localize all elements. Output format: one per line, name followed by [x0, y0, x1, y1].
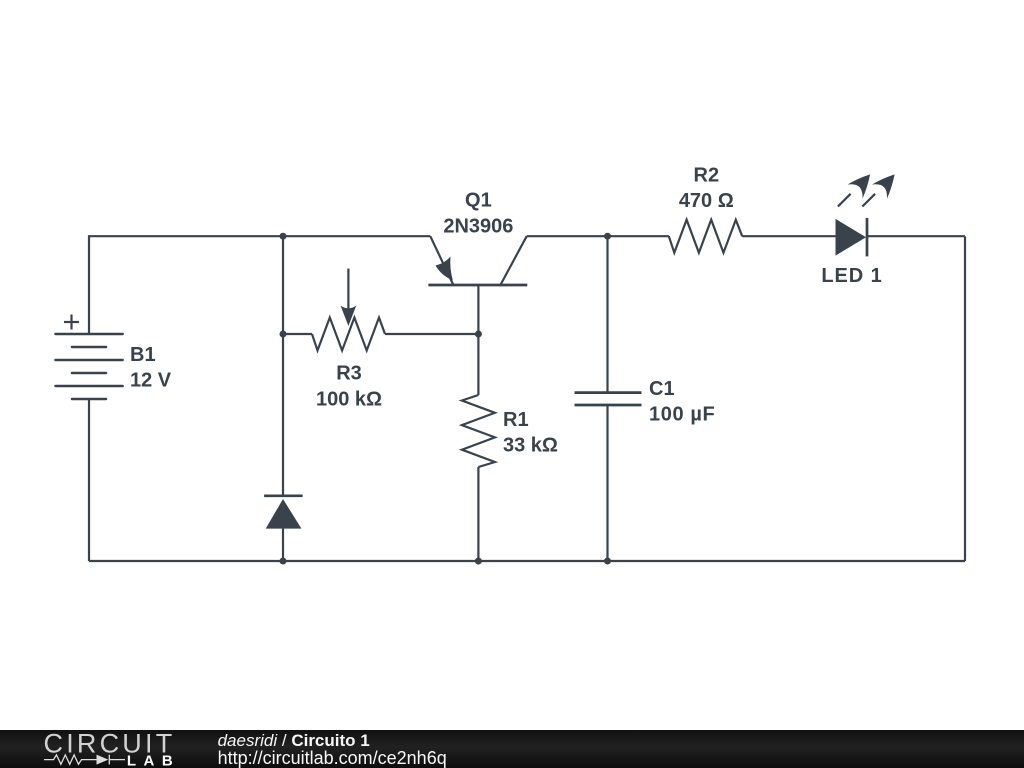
svg-text:Q1: Q1 — [465, 190, 492, 212]
node top rail / diode branch — [280, 233, 287, 240]
LED light arrow 2 — [862, 174, 894, 206]
svg-text:R3: R3 — [336, 363, 362, 385]
svg-text:http://circuitlab.com/ce2nh6q: http://circuitlab.com/ce2nh6q — [218, 748, 447, 768]
wire right rail — [964, 236, 966, 561]
wire R3 right lead to base node — [385, 333, 478, 335]
wire Q1 base to node — [477, 285, 479, 334]
svg-text:R2: R2 — [694, 164, 720, 186]
wire LED1 to right rail — [868, 235, 966, 237]
transistor Q1 — [428, 236, 527, 285]
wire C1 top lead — [606, 236, 608, 392]
svg-text:33 kΩ: 33 kΩ — [503, 435, 558, 457]
svg-text:12 V: 12 V — [130, 370, 172, 392]
resistor R2 — [669, 220, 742, 253]
svg-text:470 Ω: 470 Ω — [679, 190, 734, 212]
node bottom rail / diode branch — [280, 558, 287, 565]
node bottom rail / C1 — [604, 558, 611, 565]
svg-text:C1: C1 — [649, 378, 675, 400]
logo squiggle resistor-diode — [44, 755, 125, 765]
node R3 left / diode branch — [280, 331, 287, 338]
svg-text:LED 1: LED 1 — [821, 265, 882, 287]
wire R3 left lead — [283, 333, 312, 335]
wire bottom rail — [89, 560, 965, 562]
svg-text:R1: R1 — [503, 409, 529, 431]
battery B1 — [55, 334, 122, 399]
resistor R1 — [462, 395, 495, 467]
node top rail / C1 R2 — [604, 233, 611, 240]
LED light arrow 1 — [838, 174, 870, 206]
wire diode anode to bottom rail — [282, 529, 284, 561]
wire Q1 collector to R2 — [527, 235, 669, 237]
svg-text:2N3906: 2N3906 — [443, 216, 513, 238]
wire top-left from battery to Q1 emitter — [89, 236, 430, 334]
wire R2 to LED1 — [742, 235, 835, 237]
transistor Q1 emitter arrow — [436, 257, 453, 281]
diode D1 — [264, 496, 303, 529]
node Q1 base / R3 / R1 — [475, 331, 482, 338]
footer bar — [0, 730, 1024, 768]
battery plus sign — [64, 315, 79, 330]
svg-text:100 µF: 100 µF — [649, 404, 715, 426]
LED LED1 — [836, 218, 868, 257]
wire C1 bottom lead — [606, 405, 608, 561]
potentiometer wiper arrow — [341, 269, 357, 327]
svg-text:daesridi / Circuito 1: daesridi / Circuito 1 — [218, 731, 370, 750]
wire base node to R1 — [477, 334, 479, 395]
wire R1 to bottom rail — [477, 467, 479, 561]
node bottom rail / R1 — [475, 558, 482, 565]
wire diode branch from top rail — [282, 236, 284, 495]
svg-text:LAB: LAB — [127, 752, 180, 768]
svg-text:B1: B1 — [130, 344, 156, 366]
wire battery bottom to bottom rail — [88, 399, 90, 561]
capacitor C1 — [575, 393, 642, 405]
resistor R3 (potentiometer) — [312, 318, 385, 351]
svg-text:100 kΩ: 100 kΩ — [316, 388, 382, 410]
